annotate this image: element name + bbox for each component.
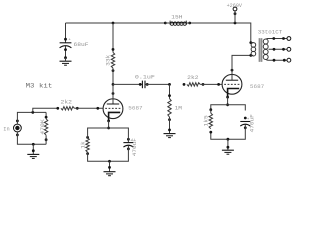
svg-text:2k2: 2k2 — [187, 74, 198, 81]
wire B+ rail top — [66, 23, 251, 43]
wire tube2 anode to transformer primary — [232, 55, 252, 70]
wire tube1 cathode to RC — [108, 121, 110, 128]
tube V1 5687 — [103, 84, 143, 122]
input jack — [14, 120, 22, 137]
svg-text:+: + — [68, 39, 71, 43]
resistor R2 470K — [39, 112, 48, 144]
svg-text:1k5: 1k5 — [202, 115, 209, 126]
svg-text:5687: 5687 — [128, 105, 142, 112]
inductor L1 15H — [164, 13, 191, 25]
wire secondary tap row 3 — [266, 58, 291, 62]
svg-text:33to1CT: 33to1CT — [258, 28, 283, 35]
wire input bottom — [17, 132, 46, 144]
node 1M junction — [168, 83, 171, 86]
resistor R1 33k — [105, 23, 115, 84]
svg-text:M3 kit: M3 kit — [26, 83, 53, 90]
svg-text:470K: 470K — [39, 119, 46, 135]
tube V2 5687 — [222, 69, 264, 99]
capacitor C4 470uF — [240, 114, 255, 132]
ground under cathode1 RC — [104, 161, 116, 175]
resistor R7 1k5 — [202, 108, 212, 133]
wire tube2 cathode to RC — [227, 97, 229, 105]
svg-text:1M: 1M — [175, 104, 182, 111]
svg-text:2k2: 2k2 — [61, 98, 73, 105]
node cathode2 ground junction — [227, 138, 230, 141]
wire cathode2 RC box — [211, 105, 246, 111]
capacitor C3 470uF — [123, 133, 138, 156]
svg-text:33k: 33k — [105, 54, 112, 66]
resistor R5 2k2 (driver grid) — [183, 74, 223, 86]
node cathode1 ground junction — [108, 160, 111, 163]
resistor R4 1M — [168, 84, 182, 133]
node +260V junction on rail — [234, 22, 237, 25]
capacitor C2 0.1uF — [113, 73, 170, 88]
wire signal jog — [33, 108, 58, 112]
node signal tap — [31, 111, 34, 114]
node anode/coupling junction — [112, 83, 115, 86]
node cathode2 junction — [226, 103, 229, 106]
node tube2 grid pin — [217, 83, 220, 86]
wire input top — [17, 112, 46, 124]
resistor R3 2k2 (input grid stopper) — [56, 98, 103, 110]
ground under 68uF — [60, 56, 72, 65]
svg-text:In: In — [3, 125, 9, 132]
wire secondary tap row 2 (CT) — [269, 47, 291, 51]
wire secondary tap row 1 — [267, 37, 291, 41]
ground under 1M — [164, 129, 176, 138]
svg-text:1k: 1k — [79, 141, 86, 149]
svg-text:+260V: +260V — [227, 2, 243, 9]
svg-text:470uF: 470uF — [249, 114, 256, 132]
svg-text:5687: 5687 — [250, 83, 264, 90]
svg-text:15H: 15H — [171, 13, 182, 20]
wire cathode1 RC box — [88, 128, 129, 133]
ground under cathode2 RC — [222, 139, 234, 154]
node cathode1 junction — [107, 127, 110, 130]
terminal +260V — [227, 2, 243, 23]
svg-text:0.1uF: 0.1uF — [135, 73, 155, 80]
ground under input — [27, 144, 39, 158]
node input ground junction — [32, 143, 35, 146]
svg-text:68uF: 68uF — [74, 41, 89, 48]
capacitor C1 68uF — [60, 23, 89, 58]
node 33k top junction — [112, 22, 115, 25]
svg-text:470uF: 470uF — [131, 138, 138, 156]
node tube1 grid pin — [96, 107, 99, 110]
resistor R6 1k — [79, 133, 89, 155]
transformer T1 — [249, 28, 282, 62]
